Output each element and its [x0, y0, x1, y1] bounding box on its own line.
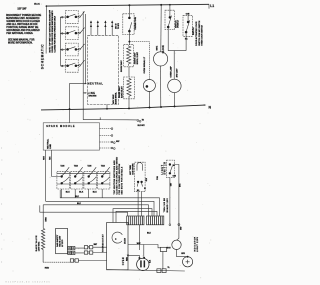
- oven thermostat box TH1: [107, 223, 128, 270]
- valve terminal squares: [68, 246, 75, 254]
- neutral bus junction dots: [106, 108, 108, 110]
- wire: bus D: [40, 205, 128, 216]
- wire: neutral feed corner to clock: [70, 84, 86, 110]
- svg-text:NEUTRAL: NEUTRAL: [46, 138, 49, 149]
- wire: line rail to ignition feed: [83, 117, 137, 120]
- svg-text:TAN: TAN: [101, 165, 106, 168]
- clock motor M1: [154, 52, 168, 66]
- surface switch right bus A: [82, 11, 84, 119]
- svg-text:240V 60HZ: 240V 60HZ: [112, 94, 115, 104]
- wire: DS3 to DS4: [177, 250, 187, 257]
- svg-text:SEE MINI MANUAL FOR: SEE MINI MANUAL FOR: [8, 38, 35, 41]
- svg-text:1SF 1NF: 1SF 1NF: [17, 9, 27, 11]
- wire: junction to neon indicator: [129, 42, 149, 80]
- notes text block: [6, 4, 42, 45]
- svg-text:SERVICING UNIT. SCHEMATIC: SERVICING UNIT. SCHEMATIC: [6, 17, 40, 20]
- wire: bus A blk: [60, 190, 159, 216]
- wire: bus E thermostat riser: [113, 209, 152, 223]
- wire: L1 bus to clock motor: [160, 5, 162, 52]
- svg-text:SCHEMATIC: SCHEMATIC: [41, 44, 45, 69]
- svg-text:SWITCH: SWITCH: [164, 161, 166, 174]
- svg-text:BROWN: BROWN: [89, 96, 97, 98]
- svg-text:COM SPARK: COM SPARK: [131, 163, 134, 175]
- surface burner switch SW4: [60, 59, 84, 72]
- svg-text:BLK: BLK: [77, 203, 82, 205]
- inline connector pair P1: [84, 246, 93, 249]
- spark module right terminal stubs: [100, 129, 112, 148]
- svg-text:TOP IGNITION SWITCHES ARE: TOP IGNITION SWITCHES ARE: [113, 160, 116, 195]
- bake valve coil L1V: [41, 228, 44, 262]
- svg-text:CLOSED FOR SPARK AND WIRED: CLOSED FOR SPARK AND WIRED: [115, 156, 118, 194]
- inline connector on igniter wire: [160, 247, 166, 251]
- svg-text:THERMOSTAT: THERMOSTAT: [102, 234, 105, 253]
- svg-text:SPARK MODULE: SPARK MODULE: [46, 125, 75, 128]
- wire: top L1 bus: [46, 4, 209, 6]
- svg-text:150-550: 150-550: [124, 238, 126, 244]
- svg-text:MORE INFORMATION.: MORE INFORMATION.: [8, 41, 33, 44]
- svg-text:RED: RED: [127, 256, 129, 261]
- neutral bus arrowhead + N label: [204, 104, 207, 106]
- svg-text:SEE NOTE FOR DETAILS: SEE NOTE FOR DETAILS: [121, 166, 124, 194]
- bottom neutral return bus: [107, 270, 185, 271]
- left margin speckles: [1, 120, 30, 272]
- node: frame corner dot: [46, 5, 48, 7]
- svg-text:CLOSED FOR SPARK OPERATION ONL: CLOSED FOR SPARK OPERATION ONLY: [54, 15, 57, 52]
- top burner ignition switch IG1: [57, 167, 70, 189]
- inline connector pair P2: [84, 251, 93, 254]
- svg-text:3600W 240V: 3600W 240V: [120, 60, 123, 72]
- igniter terminals: [138, 257, 140, 259]
- svg-text:WHT: WHT: [94, 244, 97, 246]
- svg-text:LINE: LINE: [50, 143, 52, 148]
- svg-text:BLK: BLK: [66, 192, 71, 194]
- wires CB1 to igniter: [128, 225, 158, 250]
- wire: oven lamp to neutral bus: [173, 93, 175, 107]
- svg-text:FOR 120V SPARK IGNITION: FOR 120V SPARK IGNITION: [118, 163, 121, 194]
- svg-text:OVEN LAMP: OVEN LAMP: [170, 66, 173, 78]
- svg-text:INDICATOR: INDICATOR: [193, 236, 196, 252]
- neutral arrow + label: [85, 83, 87, 85]
- surface burner switch SW1: [60, 11, 84, 24]
- svg-text:LP 2370: LP 2370: [62, 240, 64, 247]
- wire: S3 drops to connector: [138, 192, 142, 216]
- wire: light switch NO to indicator chain: [175, 165, 179, 241]
- svg-text:CLOCK: CLOCK: [163, 45, 165, 54]
- wires connectors to thermostat: [93, 247, 107, 252]
- wire: light switch down: [169, 178, 171, 224]
- wire: S2 to lamp rail: [185, 32, 187, 51]
- wire: broil to bake: [128, 67, 130, 77]
- node: broil top junction: [128, 41, 130, 43]
- neutral bus N: [41, 105, 204, 110]
- svg-text:BLK: BLK: [93, 192, 98, 194]
- svg-text:BLK GRY: BLK GRY: [138, 125, 146, 127]
- surface switch left bus: [59, 17, 61, 66]
- svg-text:8113P243-60 16022905: 8113P243-60 16022905: [6, 282, 51, 284]
- svg-text:TAN: TAN: [87, 165, 92, 168]
- svg-text:40W 120V: 40W 120V: [176, 68, 179, 78]
- spark module box U2: [43, 123, 99, 150]
- wire: module drop right (to ignition sw): [52, 150, 61, 176]
- svg-text:OVEN: OVEN: [123, 257, 125, 265]
- wire: module drop left (to valve bus): [45, 150, 47, 201]
- svg-text:THERM FUSE: THERM FUSE: [135, 16, 137, 30]
- svg-text:TAN: TAN: [60, 165, 65, 168]
- scan speckles: [8, 3, 212, 280]
- broil element R1: [124, 45, 134, 67]
- door switch S1: [165, 10, 175, 29]
- connector block CB1: [127, 216, 144, 225]
- wire: bus F thermostat riser: [116, 211, 157, 222]
- svg-text:BAKE ELMT: BAKE ELMT: [121, 86, 124, 98]
- electronic clock box U1: [88, 35, 119, 104]
- svg-text:120V 60HZ: 120V 60HZ: [38, 241, 40, 251]
- L1 terminal hook: [208, 4, 210, 8]
- svg-text:TOD4 180 BD: TOD4 180 BD: [163, 197, 166, 212]
- surface burner switch SW2: [60, 27, 84, 40]
- ignition chain rail top: [57, 173, 110, 175]
- svg-text:DOOR ACTIVATED DOOR: DOOR ACTIVATED DOOR: [195, 21, 198, 46]
- neon oven indicator DS1: [143, 80, 155, 92]
- door switch S2: [183, 15, 192, 36]
- wire: clock motor to neutral bus: [160, 66, 162, 107]
- svg-text:RED: RED: [45, 268, 50, 270]
- svg-text:BAKE BROIL: BAKE BROIL: [115, 91, 118, 104]
- wire: clock box bottom to neutral bus: [106, 105, 108, 109]
- oven light indicator DS3: [172, 240, 181, 249]
- svg-text:OVEN DOOR SWITCH: OVEN DOOR SWITCH: [201, 24, 203, 45]
- svg-text:DISCONNECT POWER BEFORE: DISCONNECT POWER BEFORE: [6, 15, 42, 17]
- top burner ignition switch IG4: [97, 167, 110, 189]
- svg-text:BOARD 120V: BOARD 120V: [166, 198, 169, 213]
- wire: L1 bus to fuse: [128, 5, 130, 18]
- ignition switch output drops: [62, 189, 102, 198]
- oven fuse F1: [123, 14, 134, 35]
- wire: lamp rail drop to oven lamp: [173, 51, 175, 80]
- svg-text:L1: L1: [210, 4, 214, 8]
- connector block CB2: [147, 216, 164, 225]
- splice on indicator wire: [178, 224, 180, 226]
- svg-text:SWITCH: SWITCH: [193, 27, 195, 35]
- frame left border: [45, 6, 47, 53]
- wire: bus C: [43, 205, 148, 216]
- wire: bake valve return: [43, 261, 70, 263]
- svg-text:TAN: TAN: [74, 165, 79, 168]
- svg-text:BRN: BRN: [46, 217, 48, 222]
- wire: junction to spark module: [69, 109, 71, 123]
- oven igniter E1: [137, 258, 149, 270]
- svg-text:WHT: WHT: [44, 156, 46, 160]
- svg-text:BROIL ELMT: BROIL ELMT: [137, 51, 139, 64]
- S3 actuator dot: [144, 187, 146, 189]
- bake element R2: [124, 77, 135, 99]
- svg-text:LINE: LINE: [88, 91, 96, 95]
- ignition feed terminals: [137, 120, 139, 122]
- wire: neon to neutral bus: [148, 92, 150, 108]
- node: neutral junction on bus: [69, 108, 71, 110]
- wire: return to thermostat: [78, 260, 106, 262]
- oven ignition switch S3: [135, 162, 146, 192]
- svg-text:WHT: WHT: [137, 243, 141, 245]
- indicator lamp DS4: [183, 256, 193, 267]
- wire: fuse to broil element: [128, 31, 130, 45]
- clock connector pin arrows: [90, 20, 113, 35]
- wire: bake to neutral bus: [128, 99, 130, 109]
- splice blocks on bottom bus: [157, 269, 161, 273]
- light switch S4: [167, 160, 177, 178]
- svg-text:AND ALL SWITCHES IN OFF: AND ALL SWITCHES IN OFF: [6, 23, 38, 26]
- svg-text:LIGHT 120V: LIGHT 120V: [197, 236, 199, 252]
- top burner ignition switch IG3: [84, 167, 97, 189]
- ignition chain rail bottom: [57, 183, 110, 185]
- svg-text:SHOWN WITH DOOR CLOSED: SHOWN WITH DOOR CLOSED: [6, 21, 40, 23]
- svg-text:TO SPK: TO SPK: [118, 22, 120, 29]
- svg-text:GROUNDED AND POLARIZED: GROUNDED AND POLARIZED: [6, 29, 40, 32]
- wire: L1 bus to door switch S1: [169, 5, 171, 18]
- top burner ignition switch IG2: [70, 167, 83, 189]
- node: door switch tap on L1 bus: [169, 4, 171, 6]
- node: fuse tap on L1 bus: [128, 4, 130, 6]
- svg-text:BLK: BLK: [75, 196, 80, 198]
- node: clock tap on L1 bus: [160, 4, 162, 6]
- svg-text:BLK: BLK: [79, 192, 84, 194]
- wire: S1 to lamp rail: [168, 27, 186, 51]
- gas safety valve box V1: [56, 228, 68, 253]
- inline connector pair P3: [70, 259, 78, 262]
- surface burner switch SW3: [60, 43, 84, 56]
- wire: bake valve branch: [42, 205, 44, 229]
- svg-text:OVEN LT: OVEN LT: [178, 19, 180, 28]
- oven lamp DS2: [168, 79, 181, 92]
- wire: bus B: [46, 201, 154, 216]
- surface switch right bus B: [85, 14, 87, 84]
- svg-text:OVEN SIGNAL LT: OVEN SIGNAL LT: [143, 56, 146, 73]
- svg-text:DOORS CLOSED FOR SPARK IGNITIO: DOORS CLOSED FOR SPARK IGNITION UNITS: [51, 10, 54, 53]
- svg-text:PER NATIONAL CODES.: PER NATIONAL CODES.: [6, 32, 33, 35]
- svg-text:POSITION. RANGE MUST BE: POSITION. RANGE MUST BE: [6, 26, 38, 29]
- wire: line feed to clock: [83, 92, 85, 94]
- wires valve to inline connectors: [75, 248, 84, 253]
- svg-text:BLK: BLK: [147, 232, 152, 234]
- svg-text:1B-1C: 1B-1C: [34, 4, 41, 6]
- svg-text:NEUTRAL: NEUTRAL: [88, 82, 104, 86]
